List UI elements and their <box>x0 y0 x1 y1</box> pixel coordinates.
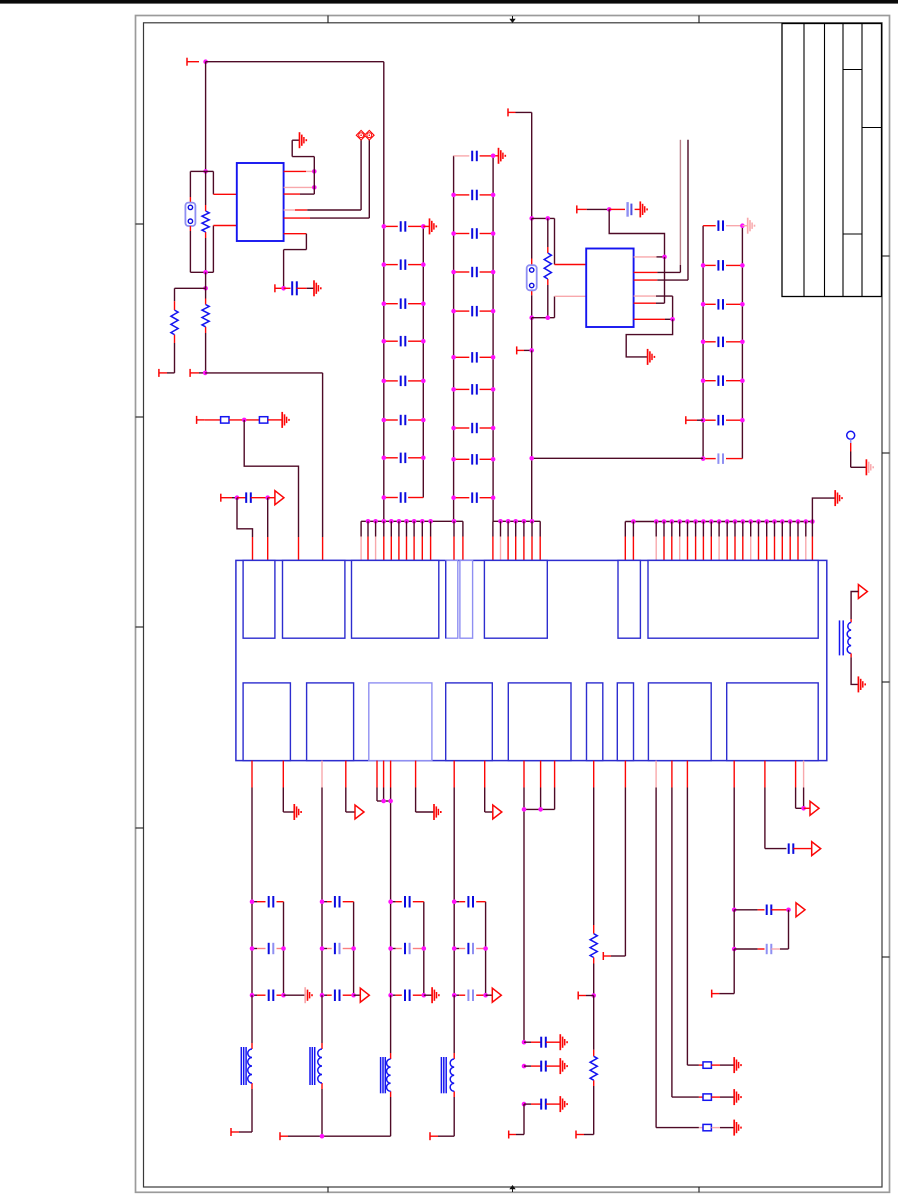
wire group3 row2 <box>391 948 424 950</box>
wire C40 to ground <box>635 208 641 210</box>
capacitor C15 <box>401 376 406 387</box>
U3 top section box 2 <box>283 560 345 638</box>
node N31 junctions <box>522 807 543 812</box>
net flag arrow A7 <box>796 903 805 917</box>
wire group1 to ground <box>284 994 306 996</box>
ground G12 <box>294 804 301 820</box>
wire antenna to ground <box>851 443 867 467</box>
op-amp U1 body <box>237 163 284 241</box>
wire bus1 pins to U3 <box>361 521 463 560</box>
node N7 junction <box>203 286 208 291</box>
wire group4 row3 <box>454 994 485 996</box>
node ladder1 row2 junctions <box>382 262 426 267</box>
capacitor C81 <box>405 896 410 908</box>
U3 bottom section box 6 <box>587 683 603 761</box>
ground G31 <box>560 1058 567 1074</box>
rail bottom U2 <box>532 317 555 319</box>
capacitor C26 <box>472 352 477 363</box>
node N25 junction <box>546 315 551 320</box>
capacitor C63 <box>269 990 274 1002</box>
node ladder2 row2 junctions <box>451 193 495 198</box>
pin stub P10 <box>577 205 609 213</box>
capacitor C101 <box>541 1061 546 1072</box>
ground G4 <box>430 218 437 234</box>
node N10 junction <box>235 495 240 500</box>
wire group2 row3 <box>322 994 354 996</box>
pin U1.R3 <box>284 193 315 195</box>
wire ladder3 row2 <box>703 264 742 266</box>
wire N36-N38 <box>733 910 735 949</box>
node group4 row2 junctions <box>452 946 488 951</box>
capacitor C13 <box>401 298 406 309</box>
node ladder3 row3 junctions <box>701 302 745 307</box>
wire group4 left rail <box>453 902 455 996</box>
wire group1 left rail <box>251 902 253 996</box>
capacitor C35 <box>718 375 723 386</box>
wire cap row 1104.1 <box>524 1103 541 1105</box>
U3 top section box 6 <box>484 560 547 638</box>
node ladder1 row5 junctions <box>382 379 426 384</box>
sheet inner border <box>144 23 883 1187</box>
node ladder2 row10 junctions <box>451 495 495 500</box>
wire to C52 <box>734 948 764 950</box>
pin stub P3 <box>159 369 175 377</box>
wire cap2 to ground <box>546 1103 560 1105</box>
wire U3 bottom pin 8 to ground <box>416 761 434 812</box>
wire ladder3 row5 <box>703 380 742 382</box>
pin stub P6 <box>221 494 237 502</box>
connector U3 body <box>236 560 827 760</box>
node N28 junction <box>670 317 675 322</box>
capacitor C62 <box>269 943 274 954</box>
capacitor C32 <box>718 260 723 271</box>
wire bus3 <box>625 521 812 523</box>
top center alignment arrow <box>509 16 515 23</box>
node group1 row1 junctions <box>250 899 255 904</box>
ground G7 <box>640 201 647 217</box>
wire cap row 1042.2 <box>524 1041 541 1043</box>
pin U2.R3 <box>634 279 688 281</box>
node ladder1 row6 junctions <box>382 418 426 423</box>
wire bottom tie rail <box>280 1132 391 1140</box>
node group4 row1 junctions <box>452 899 457 904</box>
wire N9 to U3 pin <box>244 420 298 561</box>
wire L3 leads <box>390 995 392 1136</box>
capacitor C51 <box>767 905 772 916</box>
wire boxrow2 to ground <box>711 1096 734 1098</box>
wire group1 row2 <box>252 948 284 950</box>
wire ladder3 row7 <box>703 458 742 460</box>
pin U1.R2 <box>284 186 315 188</box>
wire N27 to U2.R5 <box>664 257 666 303</box>
wire ladder2 left rail <box>453 156 455 522</box>
wire ladder2 row7 <box>454 388 494 390</box>
wire V2 mid <box>531 318 533 351</box>
wire boxrow3 to ground <box>711 1127 734 1129</box>
wire L5 to ground <box>851 653 858 684</box>
wire cap row 1066.1 <box>524 1065 541 1067</box>
wire C1 to ground <box>297 287 314 289</box>
wire ladder3 row4 <box>703 341 742 343</box>
wire U3 bottom pin 10 to arrow <box>485 761 493 812</box>
pin stub P5 <box>197 416 221 424</box>
pin U2.1 <box>555 264 587 266</box>
capacitor C18 <box>401 492 406 503</box>
node N36 junction <box>732 908 737 913</box>
node N2 junction <box>203 169 208 174</box>
wire C52 up to N37 <box>771 910 788 949</box>
wire group3 right rail <box>423 902 425 996</box>
inductor L1 <box>241 1047 252 1085</box>
wire ladder2 row6 <box>454 356 494 358</box>
wire ladder1 row1 <box>384 225 424 227</box>
wire U2 left pin2 rise <box>554 296 556 317</box>
capacitor C210 <box>472 492 477 503</box>
wire crystal branch top <box>190 171 205 202</box>
U3 top section box 1 <box>243 560 275 638</box>
U3 top section box 3 <box>352 560 439 638</box>
wire to C40 <box>609 208 625 210</box>
node N38 junction <box>732 947 737 952</box>
wire L2 leads <box>321 995 323 1136</box>
net flag arrow A4 <box>493 805 502 819</box>
capacitor C17 <box>401 453 406 464</box>
node ladder1 row3 junctions <box>382 301 426 306</box>
wire ladder2 row8 <box>454 427 494 429</box>
pin U1.R4 <box>284 209 362 211</box>
inductor L5 <box>840 620 852 655</box>
wire U2 left pin1 drop <box>554 218 556 264</box>
ground G9 <box>866 459 873 475</box>
capacitor C102 <box>541 1099 546 1110</box>
wire ladder1 right rail <box>422 226 424 497</box>
wire mid resistor branch <box>205 288 207 373</box>
wire flag1 drop <box>360 140 362 210</box>
ground G30 <box>560 1034 567 1050</box>
ground G2 <box>314 280 321 296</box>
op-amp U2 body <box>586 249 633 328</box>
net flag arrow A23 <box>492 988 501 1002</box>
net flag arrow A5 <box>812 842 821 856</box>
U3 top section box 7 <box>618 560 640 638</box>
wire top rail <box>206 61 384 63</box>
capacitor C22 <box>472 190 477 201</box>
wire group3 left rail <box>390 902 392 996</box>
capacitor C14 <box>401 336 406 347</box>
capacitor C25 <box>472 306 477 317</box>
node N23 junction <box>529 456 534 461</box>
wire antenna feed B <box>687 140 689 280</box>
wire resistor R1 leads <box>205 171 207 272</box>
wire U3 bottom pin 4 to arrow <box>346 761 355 812</box>
ground G32 <box>560 1096 567 1112</box>
capacitor C27 <box>472 384 477 395</box>
pin U1.1 <box>213 193 236 195</box>
node N32 junction <box>801 806 806 811</box>
wire long to U3 pin <box>205 373 322 561</box>
node ladder3 row5 junctions <box>701 378 745 383</box>
crystal Y1 <box>185 203 195 226</box>
wire bus1 <box>361 520 463 522</box>
U3 top section box 8 <box>648 560 818 638</box>
wire ladder2 row5 <box>454 310 494 312</box>
flag X1 <box>356 130 366 140</box>
node N22 junction <box>529 348 534 353</box>
wire N10 to U3 pin <box>237 498 253 561</box>
wire group3 row3 <box>391 994 424 996</box>
node ladder1 row8 junctions <box>382 495 387 500</box>
wire boxrow2 <box>699 1096 703 1098</box>
crystal Y2 <box>527 265 537 290</box>
ground G1 <box>300 132 307 148</box>
wire group2 right rail <box>353 902 355 996</box>
node N6 junction <box>281 286 286 291</box>
pin stub P7 <box>686 416 703 424</box>
net flag arrow A6 <box>810 801 819 815</box>
wire ladder1 top to ground <box>423 225 429 227</box>
wire group2 row2 <box>322 948 354 950</box>
node N3 junction <box>203 270 208 275</box>
wire N26 route to U2.p1 <box>609 209 664 257</box>
wire N32 to arrow <box>804 807 810 809</box>
U3 bottom section box 5 <box>508 683 571 761</box>
wire U2 ground route <box>626 319 672 357</box>
node group1 row2 junctions <box>250 946 286 951</box>
pin stub P9 <box>517 346 532 354</box>
net flag arrow A3 <box>355 805 364 819</box>
inductor L2 <box>310 1047 322 1085</box>
capacitor C92 <box>468 943 473 954</box>
node group1 row3 junctions <box>250 993 286 998</box>
node ladder2 row7 junctions <box>451 387 495 392</box>
resistor R3 <box>202 305 209 327</box>
pin stub P1 <box>187 58 199 66</box>
wire bus3 pins to U3 <box>625 522 812 561</box>
wire arrow to L5 <box>851 592 858 623</box>
wire bus2 <box>493 520 540 522</box>
U3 bottom section box 1 <box>243 683 290 761</box>
wire N3-N7 <box>205 272 207 288</box>
wire R8 leads <box>576 996 594 1139</box>
wire cap0 to ground <box>546 1041 560 1043</box>
ground G40 <box>734 1057 741 1073</box>
node N24 junction <box>546 216 551 221</box>
pin U1.R1 <box>284 170 315 172</box>
pin U2.R5 <box>634 302 665 304</box>
pin stub P11 <box>578 992 594 1000</box>
wire net734 bottom <box>712 949 735 998</box>
ground G11 <box>858 676 865 692</box>
title block (rotated, empty) <box>782 24 882 297</box>
wire C2 to N11 <box>251 497 268 499</box>
U3 top section box 5 <box>460 560 473 638</box>
capacitor C61 <box>269 896 274 908</box>
wire ladder2 row1 <box>454 155 494 157</box>
pin U2.R1 <box>634 256 665 258</box>
capacitor C40 <box>628 202 632 217</box>
top black margin bar <box>0 0 898 4</box>
wire U3 bottom pin 9 (net D4) <box>453 761 455 902</box>
wire U3 bottom pin 15 to stub <box>603 761 625 960</box>
capacitor C1 <box>292 281 297 295</box>
ground G5 <box>499 148 506 164</box>
pin stub P2 <box>275 284 284 292</box>
wire V2 crystal leads <box>531 218 533 317</box>
node N4 junction <box>312 169 317 174</box>
inductor L4 <box>441 1057 454 1093</box>
wire ladder2 row10 <box>454 497 494 499</box>
capacitor C16 <box>401 415 406 425</box>
node N11 junction <box>265 495 270 500</box>
capacitor C21 <box>472 151 477 162</box>
node N34-1 junction <box>522 1064 527 1069</box>
node ladder3 row7 junctions <box>701 456 706 461</box>
node ladder3 row2 junctions <box>701 263 745 268</box>
wire ladder3 left rail <box>702 226 704 459</box>
pin U1.2 <box>213 225 236 227</box>
U3 bottom section box 7 <box>617 683 633 761</box>
wire C50 to arrow <box>793 848 811 850</box>
node N34-2 junction <box>522 1102 527 1107</box>
wire ladder2 right rail <box>492 156 494 522</box>
node N33 junction <box>320 1134 325 1139</box>
wire group2 to arrow <box>354 994 361 996</box>
ground G20 <box>305 987 312 1003</box>
wire crystal branch bottom <box>190 226 213 272</box>
wire group4 to arrow <box>486 994 493 996</box>
pin U2.R4 <box>634 295 673 297</box>
wire boxrow1 to ground <box>711 1064 734 1066</box>
wire L4 leads <box>430 995 454 1140</box>
antenna E1 <box>847 431 855 443</box>
wire V2 upper <box>531 112 533 218</box>
wire boxrow1 <box>699 1064 703 1066</box>
capacitor C11 <box>401 221 406 232</box>
wire group2 left rail <box>321 902 323 996</box>
bottom center alignment arrow <box>509 1185 515 1192</box>
node group2 row1 junctions <box>320 899 325 904</box>
capacitor C52 <box>767 944 772 954</box>
capacitor C31 <box>718 220 723 231</box>
wire ladder3 row6 <box>703 419 742 421</box>
capacitor C33 <box>718 299 723 310</box>
net flag arrow A1 <box>275 491 284 505</box>
capacitor C29 <box>472 454 477 465</box>
pin U1.R6 staircase <box>284 234 307 289</box>
resistor R90 <box>703 1062 711 1068</box>
ground G42 <box>734 1120 741 1136</box>
node N30 junctions <box>381 799 393 804</box>
node N35 junction <box>591 993 596 998</box>
wire R4-R5 <box>229 419 260 421</box>
wire ladder1 row6 <box>384 419 424 421</box>
node bus3 junctions <box>631 519 815 524</box>
capacitor C12 <box>401 259 406 270</box>
node ladder2 row3 junctions <box>451 231 495 236</box>
ground G10 <box>835 490 842 506</box>
pin U2.R6 <box>634 318 673 320</box>
capacitor C71 <box>335 896 340 908</box>
wire N11 to arrow <box>268 497 275 499</box>
wire boxrow3 <box>699 1127 703 1129</box>
capacitor C100 <box>541 1037 546 1048</box>
node ladder1 row7 junctions <box>382 456 426 461</box>
wire bus3 to ground <box>812 498 835 521</box>
capacitor C24 <box>472 267 477 277</box>
wire U2.R4 drop <box>672 296 674 319</box>
U3 top section box 4 <box>446 560 458 638</box>
capacitor C72 <box>335 943 340 954</box>
wire to C51 <box>734 909 764 911</box>
wire group1 row3 <box>252 994 284 996</box>
wire flag2 drop <box>368 140 370 218</box>
capacitor C28 <box>472 423 477 433</box>
pin U2.2 <box>555 295 587 297</box>
wire ladder1 row3 <box>384 303 424 305</box>
node N27 junction <box>662 255 667 260</box>
resistor R4 <box>221 417 229 423</box>
U3 bottom section box 9 <box>727 683 819 761</box>
wire ladder1 row7 <box>384 457 424 459</box>
wire group4 row1 <box>454 901 485 903</box>
wire ladder3 bottom to V2 <box>532 457 703 459</box>
resistor R6 <box>544 253 551 279</box>
net flag arrow A21 <box>360 988 369 1002</box>
wire ladder3 right rail <box>741 226 743 459</box>
wire U3 bottom pin 19 (cap pair) <box>733 761 735 910</box>
wire L1 leads <box>231 995 252 1136</box>
U3 bottom section box 4 <box>446 683 493 761</box>
wire R5 to ground <box>268 419 283 421</box>
wire group4 row2 <box>454 948 485 950</box>
wire C51 to arrow <box>771 909 788 911</box>
wire U3 bottom pin 20 (cap arrow) <box>765 761 787 849</box>
wire cap1 to ground <box>546 1065 560 1067</box>
inductor L3 <box>381 1057 391 1093</box>
pin U2.R2 <box>634 271 681 273</box>
ground G22 <box>432 987 439 1003</box>
wire R7 lower <box>593 958 595 996</box>
node N1 junction <box>203 59 208 64</box>
node ladder3 top right junction <box>740 223 745 228</box>
capacitor C2 <box>246 492 251 503</box>
wire ladder2 top to ground <box>491 154 499 159</box>
wire ladder1 left rail <box>383 62 385 522</box>
node N34-0 junction <box>522 1040 527 1045</box>
wire U3 bottom pins 5-7 tie <box>377 761 391 902</box>
wire U3 bottom pin 14 (net R-div) <box>593 761 595 934</box>
wire ladder1 row4 <box>384 340 424 342</box>
wire resistor R6 branch <box>547 218 549 317</box>
node N21 junction <box>529 315 534 320</box>
node N9 junction <box>242 418 247 423</box>
node N5 junction <box>312 185 317 190</box>
resistor R8 <box>590 1056 597 1080</box>
node ladder3 row4 junctions <box>701 340 745 345</box>
capacitor C23 <box>472 228 477 239</box>
wire U3 bottom pin 2 to ground <box>283 761 294 812</box>
capacitor C91 <box>468 896 473 908</box>
node ladder2 row9 junctions <box>451 457 495 462</box>
resistor R2 <box>171 310 178 335</box>
node group2 row3 junctions <box>320 993 356 998</box>
capacitor C82 <box>405 943 410 954</box>
node ladder2 row5 junctions <box>451 309 495 314</box>
wire to C2 <box>237 497 246 499</box>
wire ladder1 row2 <box>384 264 424 266</box>
wire group1 right rail <box>283 902 285 996</box>
capacitor C36 <box>718 415 723 426</box>
